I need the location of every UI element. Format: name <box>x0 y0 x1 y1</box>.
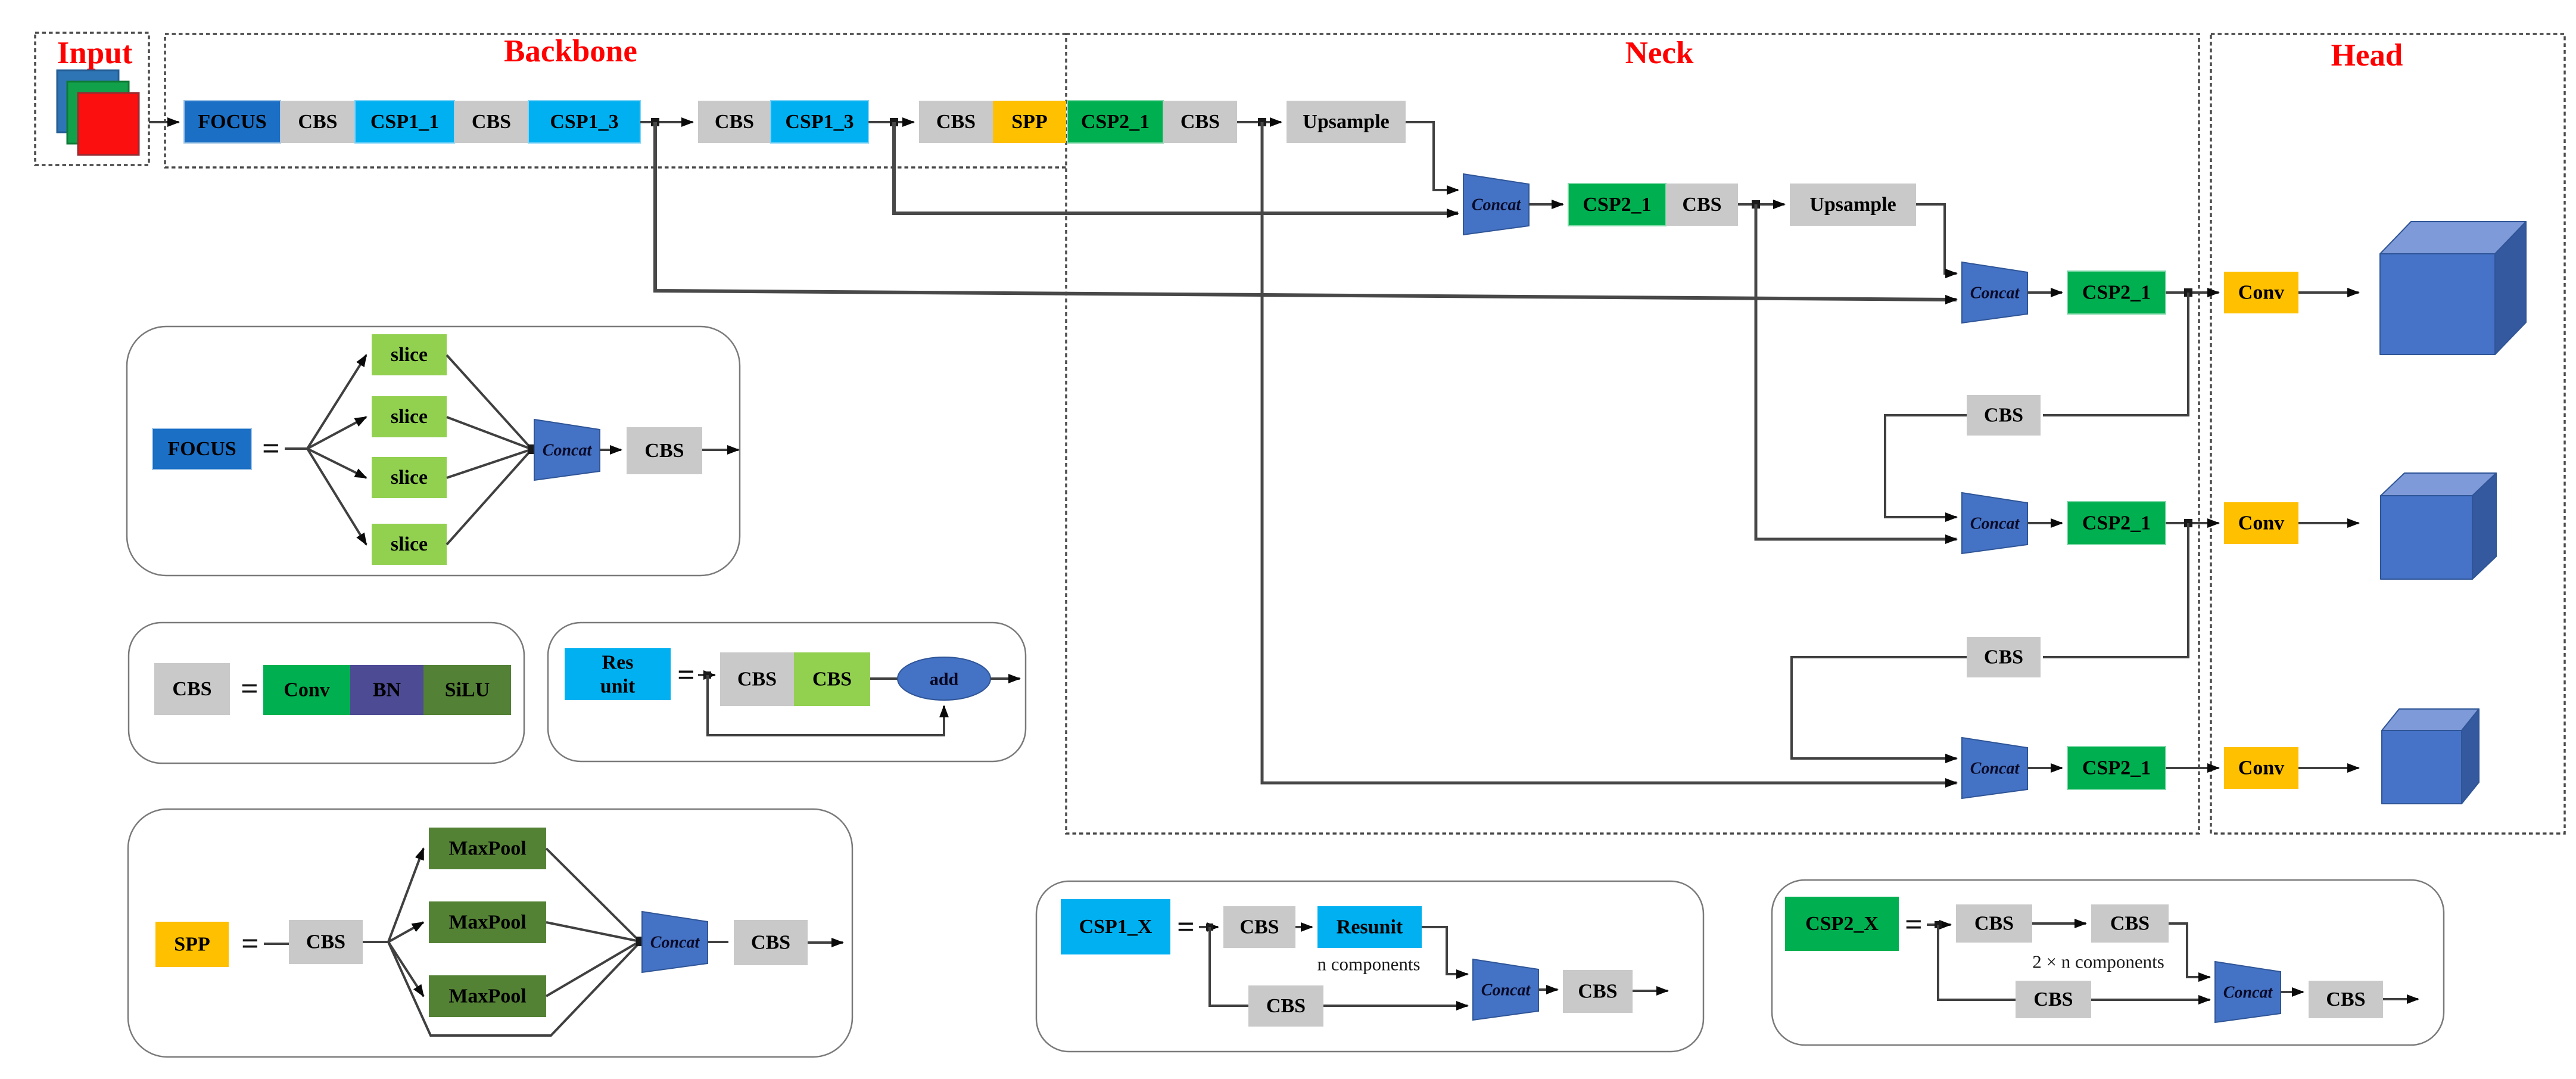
block CBS mid2 <box>1967 637 2041 677</box>
svg-text:CSP1_X: CSP1_X <box>1079 916 1152 938</box>
svg-text:CSP2_1: CSP2_1 <box>2082 512 2151 534</box>
region box Neck <box>1066 34 2199 834</box>
wire CSP2_1 to Conv rowB <box>2166 522 2219 524</box>
svg-text:Conv: Conv <box>2238 757 2284 779</box>
concat block 1 <box>1463 174 1529 235</box>
svg-text:slice: slice <box>391 533 428 555</box>
junction CSP1_X <box>1206 923 1213 931</box>
wire input to FOCUS <box>149 121 179 123</box>
svg-text:=: = <box>241 672 258 706</box>
svg-text:CBS: CBS <box>1974 913 2014 935</box>
wire CBS to Resunit <box>1295 926 1312 928</box>
wire CSP2_1 to Conv rowA <box>2166 291 2219 294</box>
legend block Conv <box>263 665 350 715</box>
wire skip backbone P4 to Concat1 <box>894 122 1458 213</box>
legend block SPP <box>155 922 229 967</box>
block Conv rowA <box>2224 272 2298 313</box>
wire slice 3 to Concat <box>447 449 532 478</box>
svg-text:CBS: CBS <box>2033 988 2073 1010</box>
wire eq to junction csp1 <box>1199 926 1218 928</box>
svg-text:Concat: Concat <box>650 934 700 952</box>
svg-text:Concat: Concat <box>1970 284 2020 303</box>
wire CSP1_3a to CBS <box>640 121 693 123</box>
wire eq to CBS res legend <box>698 674 715 676</box>
concat block SPP legend <box>642 912 708 972</box>
junction C <box>1258 118 1266 126</box>
svg-text:SiLU: SiLU <box>445 679 490 701</box>
svg-text:CBS: CBS <box>715 111 754 133</box>
svg-text:FOCUS: FOCUS <box>167 438 236 460</box>
wire CBS to CBS csp2 <box>2032 922 2086 925</box>
wire Concat1 to CSP2_1 <box>1529 203 1563 206</box>
wire skip backbone P3 to Concat2 <box>655 122 1957 300</box>
svg-text:CBS: CBS <box>1578 981 1617 1003</box>
wire lower branch csp2 <box>1938 925 2016 1000</box>
svg-text:=: = <box>1177 910 1195 944</box>
legend block CBS csp2b <box>2091 904 2169 943</box>
svg-text:CSP2_1: CSP2_1 <box>2082 757 2151 779</box>
svg-text:CBS: CBS <box>751 932 790 954</box>
legend box SPP <box>128 809 852 1057</box>
svg-text:add: add <box>930 670 959 689</box>
wire CSP1_3b to CBS <box>868 121 914 123</box>
svg-text:CBS: CBS <box>298 111 337 133</box>
svg-text:CBS: CBS <box>2110 913 2150 935</box>
wire Concat2 to CSP2_1 rowA <box>2027 291 2062 294</box>
input image green channel <box>67 82 129 144</box>
wire Concat4 to CSP2_1 rowC <box>2027 767 2062 769</box>
svg-text:CBS: CBS <box>1180 111 1220 133</box>
legend block Resunit <box>1317 906 1422 948</box>
junction res legend <box>704 671 711 679</box>
svg-text:Head: Head <box>2331 38 2403 73</box>
wire MaxPool 1 to Concat <box>546 848 640 941</box>
wire MaxPool 3 to Concat <box>546 941 640 996</box>
block slice 2 <box>372 396 447 437</box>
svg-text:slice: slice <box>391 467 428 489</box>
region box Backbone (open right side) <box>165 34 1066 167</box>
svg-text:Backbone: Backbone <box>504 34 637 69</box>
block CBS b5 <box>1163 101 1237 143</box>
legend block CBS spp2 <box>734 920 808 965</box>
wire CBS out csp2 <box>2383 998 2418 1000</box>
wire CBS to Upsample2 <box>1738 203 1784 206</box>
concat block 4 <box>1962 738 2027 798</box>
wire branch to MaxPool 2 <box>388 922 423 942</box>
svg-text:Concat: Concat <box>1970 515 2020 533</box>
wire CBS out FOCUS legend <box>702 449 739 451</box>
svg-text:slice: slice <box>391 406 428 428</box>
legend block SiLU <box>423 665 511 715</box>
svg-text:CBS: CBS <box>1984 405 2023 427</box>
wire Concat to CBS SPP legend <box>708 941 728 943</box>
wire branch to slice 2 <box>307 417 366 449</box>
wire lower branch csp1 <box>1210 927 1248 1006</box>
wire CBS mid1 to Concat3 <box>1885 415 1967 517</box>
block Conv rowC <box>2224 747 2298 789</box>
wire CBS to Upsample1 <box>1237 121 1281 123</box>
junction FOCUS concat <box>528 444 538 454</box>
svg-text:Res: Res <box>602 652 634 674</box>
block CSP2_1 rowA <box>2067 271 2166 314</box>
wire rowA down to CBS mid1 <box>2043 293 2188 415</box>
wire Resunit to Concat csp1 <box>1422 927 1468 974</box>
wire CBS to add <box>870 677 898 680</box>
wire Concat to CBS csp2 <box>2281 991 2303 993</box>
region box Head <box>2211 34 2565 834</box>
svg-text:MaxPool: MaxPool <box>448 912 526 934</box>
legend block CBS csp2a <box>1956 904 2032 943</box>
svg-text:Upsample: Upsample <box>1809 194 1896 216</box>
wire CBS mid2 to Concat4 <box>1792 657 1967 758</box>
svg-text:=: = <box>262 432 280 466</box>
block CSP2_1 neck row2 <box>1568 184 1666 226</box>
legend block CSP2_X <box>1785 897 1899 951</box>
block slice 1 <box>372 334 447 375</box>
block CBS b4 <box>919 101 993 143</box>
svg-text:Neck: Neck <box>1625 36 1694 70</box>
input image red channel <box>78 93 139 155</box>
block CSP1_1 <box>355 101 454 143</box>
junction SPP concat <box>636 937 646 946</box>
legend block CBS <box>154 663 230 715</box>
svg-text:slice: slice <box>391 344 428 366</box>
block CSP2_1 top <box>1067 101 1163 143</box>
wire res unit feedback <box>708 675 944 735</box>
svg-text:CBS: CBS <box>1984 646 2023 668</box>
wire Conv to output rowB <box>2298 522 2359 524</box>
wire Conv to output rowC <box>2298 767 2359 769</box>
wire Upsample2 to Concat2 <box>1916 204 1957 273</box>
legend block Res unit <box>565 648 671 700</box>
svg-text:Concat: Concat <box>1472 196 1522 214</box>
wire MaxPool 2 to Concat <box>546 922 640 941</box>
add ellipse <box>898 657 990 700</box>
wire branch to slice 4 <box>307 449 366 545</box>
output cube large <box>2380 222 2526 355</box>
legend block CBS csp1b <box>1248 985 1323 1027</box>
wire Concat to CBS FOCUS legend <box>600 449 621 451</box>
wire branch to slice 1 <box>307 355 366 449</box>
block slice 4 <box>372 524 447 565</box>
concat block 2 <box>1962 262 2027 323</box>
wire Upsample1 to Concat1 <box>1406 122 1458 190</box>
svg-text:BN: BN <box>373 679 401 701</box>
wire slice 4 to Concat <box>447 449 532 545</box>
wire eq to junction csp2 <box>1927 923 1951 926</box>
wire branch to MaxPool 3 <box>388 942 423 996</box>
svg-text:CBS: CBS <box>1266 995 1306 1017</box>
svg-text:SPP: SPP <box>1011 111 1047 133</box>
input image blue channel <box>57 70 119 132</box>
svg-text:Upsample: Upsample <box>1303 111 1389 133</box>
svg-text:=: = <box>677 658 695 692</box>
svg-text:CSP2_1: CSP2_1 <box>2082 282 2151 304</box>
svg-text:CBS: CBS <box>1239 916 1279 938</box>
svg-text:2 × n components: 2 × n components <box>2032 951 2164 972</box>
block MaxPool 3 <box>429 975 546 1017</box>
legend block BN <box>350 665 423 715</box>
wire branch to slice 3 <box>307 449 366 478</box>
block CSP2_1 rowC <box>2067 747 2166 789</box>
svg-text:CBS: CBS <box>812 668 852 691</box>
concat block CSP1_X legend <box>1473 959 1538 1020</box>
svg-text:MaxPool: MaxPool <box>448 985 526 1008</box>
junction A <box>651 118 659 126</box>
junction D <box>1752 200 1760 209</box>
wire branch to MaxPool 1 <box>388 848 423 942</box>
block MaxPool 1 <box>429 828 546 869</box>
block CBS b1 <box>281 101 355 143</box>
svg-text:Conv: Conv <box>2238 282 2284 304</box>
wire eq to branch FOCUS <box>285 447 307 450</box>
svg-text:Concat: Concat <box>2223 984 2273 1002</box>
legend block CSP1_X <box>1061 899 1170 954</box>
svg-text:Concat: Concat <box>543 441 593 460</box>
svg-text:SPP: SPP <box>174 934 210 956</box>
svg-text:CSP2_X: CSP2_X <box>1805 913 1879 935</box>
svg-text:Conv: Conv <box>284 679 329 701</box>
legend box CBS <box>129 623 524 763</box>
junction F <box>2184 519 2192 527</box>
wire SPP bypass <box>388 942 640 1036</box>
svg-text:CSP1_3: CSP1_3 <box>550 111 618 133</box>
wire CSP2_1 to Conv rowC <box>2166 767 2219 769</box>
wire skip neck CBS to Concat3 <box>1756 204 1957 539</box>
block CSP1_3 first <box>528 101 640 143</box>
legend block CBS res2 <box>794 652 870 706</box>
wire CBS out SPP legend <box>808 941 843 944</box>
svg-text:Input: Input <box>57 36 133 70</box>
block Upsample 1 <box>1287 101 1406 143</box>
wire add out <box>990 677 1020 680</box>
block CBS b3 <box>698 101 771 143</box>
junction B <box>890 118 898 126</box>
legend block FOCUS <box>152 428 251 469</box>
svg-text:CSP2_1: CSP2_1 <box>1081 111 1150 133</box>
concat block FOCUS legend <box>534 419 600 480</box>
svg-text:MaxPool: MaxPool <box>448 838 526 860</box>
svg-text:Conv: Conv <box>2238 512 2284 534</box>
svg-text:CSP1_3: CSP1_3 <box>785 111 854 133</box>
block MaxPool 2 <box>429 901 546 943</box>
wire CBS to Concat lower csp1 <box>1323 1005 1468 1007</box>
svg-text:n components: n components <box>1317 954 1420 975</box>
svg-text:Concat: Concat <box>1481 981 1531 1000</box>
svg-text:unit: unit <box>600 676 636 698</box>
wire Conv to output rowA <box>2298 291 2359 294</box>
legend block CBS csp1a <box>1223 906 1295 948</box>
svg-text:CBS: CBS <box>737 668 777 691</box>
svg-text:CBS: CBS <box>472 111 511 133</box>
legend block CBS csp2c <box>2016 981 2091 1018</box>
legend block CBS res1 <box>720 652 794 706</box>
concat block 3 <box>1962 493 2027 554</box>
svg-text:Resunit: Resunit <box>1337 916 1403 938</box>
legend box CSP1_X <box>1036 881 1703 1052</box>
wire rowB down to CBS mid2 <box>2043 523 2188 657</box>
wire slice 1 to Concat <box>447 355 532 449</box>
block CBS b2 <box>454 101 528 143</box>
svg-text:CBS: CBS <box>306 931 345 953</box>
wire CBS to Concat lower csp2 <box>2091 999 2210 1001</box>
block CSP2_1 rowB <box>2067 502 2166 545</box>
block FOCUS <box>184 101 281 143</box>
block CSP1_3 second <box>771 101 868 143</box>
block CBS mid1 <box>1967 395 2041 436</box>
wire eq to CBS SPP <box>264 943 289 945</box>
junction E <box>2184 288 2192 297</box>
svg-text:CBS: CBS <box>644 440 684 462</box>
legend block CBS csp2d <box>2309 981 2383 1018</box>
block Upsample 2 <box>1790 184 1916 226</box>
legend block CBS csp1c <box>1563 970 1633 1013</box>
svg-text:Concat: Concat <box>1970 760 2020 778</box>
svg-text:=: = <box>1905 908 1923 942</box>
svg-text:=: = <box>241 927 259 961</box>
svg-text:FOCUS: FOCUS <box>198 111 266 133</box>
wire Concat3 to CSP2_1 rowB <box>2027 522 2062 524</box>
block Conv rowB <box>2224 502 2298 544</box>
wire CBS to branch SPP <box>363 941 388 943</box>
svg-text:CBS: CBS <box>1682 194 1721 216</box>
block SPP <box>993 101 1066 143</box>
legend block CBS spp1 <box>289 920 363 964</box>
svg-text:CSP2_1: CSP2_1 <box>1583 194 1651 216</box>
region box Input <box>35 33 149 165</box>
legend block CBS focus <box>627 427 702 474</box>
junction CSP2_X <box>1935 921 1942 928</box>
wire skip SPP-CBS to Concat4 <box>1262 122 1957 783</box>
block slice 3 <box>372 457 447 498</box>
wire CBS out csp1 <box>1633 990 1668 992</box>
svg-text:CSP1_1: CSP1_1 <box>370 111 439 133</box>
svg-text:CBS: CBS <box>172 678 211 700</box>
block CBS n1 <box>1666 184 1738 226</box>
concat block CSP2_X legend <box>2215 962 2281 1022</box>
output cube medium <box>2381 473 2496 579</box>
legend box Res unit <box>548 623 1026 761</box>
legend box FOCUS <box>127 327 740 576</box>
wire slice 2 to Concat <box>447 417 532 449</box>
wire Concat to CBS csp1 <box>1538 988 1558 991</box>
output cube small <box>2382 709 2479 804</box>
svg-text:CBS: CBS <box>936 111 976 133</box>
wire CBS2 to Concat csp2 <box>2169 923 2210 977</box>
legend box CSP2_X <box>1772 880 2444 1045</box>
svg-text:CBS: CBS <box>2326 988 2365 1010</box>
